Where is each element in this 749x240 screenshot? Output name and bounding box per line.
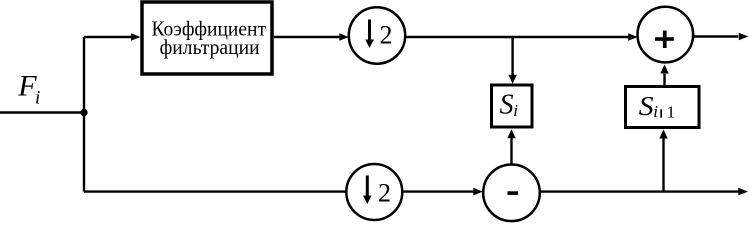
box S_i+1 — [626, 87, 700, 128]
wire: adder output to right edge — [693, 35, 738, 37]
wire: top downsampler to adder — [405, 36, 628, 38]
wire: branch down to S_i box — [511, 37, 513, 75]
wire: junction to filter box — [84, 36, 132, 38]
box S_i — [492, 85, 533, 127]
downsampler circle (bottom) ↓2 — [346, 164, 402, 220]
adder circle (plus) — [638, 7, 694, 63]
wire: filter box to top downsampler — [274, 36, 340, 38]
wire: input F_i horizontal — [0, 111, 84, 113]
svg-text:1: 1 — [667, 103, 676, 122]
wire: subtractor up to S_i box — [510, 138, 512, 165]
wire: bottom rail from junction to subtractor — [84, 190, 474, 192]
wire: S_i+1 up to adder — [663, 74, 665, 85]
downsampler circle (top) ↓2 — [349, 7, 405, 63]
svg-text:i: i — [35, 88, 40, 109]
svg-text:i: i — [653, 102, 658, 121]
wire: left vertical branch — [83, 37, 85, 192]
box: Коэффициент фильтрации (filter coefficient) — [142, 2, 272, 74]
wire: branch up to S_i+1 box — [662, 138, 664, 191]
svg-text:S: S — [639, 91, 654, 121]
svg-text:S: S — [500, 90, 514, 121]
svg-text:i: i — [513, 101, 518, 120]
svg-text:фильтрации: фильтрации — [160, 35, 260, 59]
svg-text:2: 2 — [380, 21, 393, 50]
node: input junction dot — [80, 109, 87, 116]
wire: subtractor output to right edge — [540, 190, 739, 192]
subtractor circle (minus) — [483, 165, 540, 222]
svg-text:2: 2 — [378, 179, 391, 208]
